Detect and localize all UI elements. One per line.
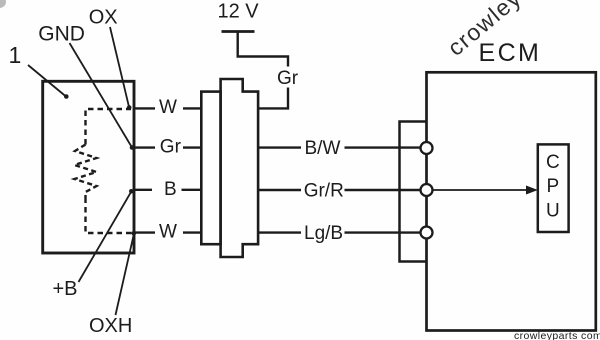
connector left half — [201, 92, 220, 245]
svg-text:Gr/R: Gr/R — [304, 181, 344, 202]
connector right half — [221, 79, 259, 257]
node dot OX (pin 1) — [127, 105, 132, 110]
svg-text:B/W: B/W — [305, 138, 341, 159]
terminal circle 2 (Gr/R) — [421, 184, 433, 196]
svg-text:OXH: OXH — [89, 315, 132, 337]
leader line for label 1 — [28, 65, 66, 97]
node dot for label 1 — [64, 94, 69, 99]
leader line GND — [70, 43, 133, 148]
svg-text:P: P — [547, 176, 560, 197]
svg-text:B: B — [164, 179, 177, 200]
leader line OX — [110, 27, 129, 107]
heater dashed outline — [86, 109, 134, 233]
watermark fragment top-left — [0, 0, 6, 8]
svg-text:1: 1 — [9, 42, 22, 68]
svg-text:12 V: 12 V — [218, 1, 260, 23]
node dot GND (pin 2) — [130, 145, 135, 150]
wire Gr/R connector to ECM — [258, 189, 421, 191]
svg-text:U: U — [546, 201, 560, 222]
wire B pin3 to connector — [135, 189, 201, 191]
svg-text:W: W — [159, 222, 177, 243]
leader line +B — [79, 192, 132, 283]
wire Gr pin2 to connector — [135, 146, 201, 148]
ECM connector bracket — [400, 122, 427, 262]
svg-text:OX: OX — [89, 7, 118, 29]
wire 12V supply to connector top — [238, 32, 288, 109]
arrow Gr/R to CPU — [433, 189, 529, 191]
svg-text:Lg/B: Lg/B — [304, 223, 343, 244]
svg-text:ECM: ECM — [479, 39, 542, 67]
node dot +B (pin 3) — [129, 189, 134, 194]
CPU box U2 — [538, 144, 569, 232]
wire Lg/B connector to ECM — [258, 231, 421, 233]
terminal circle 1 (B/W) — [421, 142, 433, 154]
svg-text:W: W — [159, 97, 177, 118]
wire B/W connector to ECM — [258, 146, 421, 148]
svg-text:Gr: Gr — [160, 136, 182, 157]
ECM box — [427, 72, 596, 330]
wire W pin4 to connector — [135, 231, 201, 233]
svg-text:+B: +B — [53, 278, 78, 300]
terminal circle 3 (Lg/B) — [421, 227, 433, 239]
resistor R heater (dashed zigzag) — [75, 145, 97, 198]
leader line OXH — [116, 234, 135, 316]
svg-text:GND: GND — [38, 23, 85, 46]
label Gr (supply wire) with white mask — [276, 67, 299, 88]
12V supply symbol bar — [222, 30, 255, 33]
svg-text:C: C — [546, 152, 560, 173]
node dot OXH (pin 4) — [132, 231, 137, 236]
wire W pin1 to connector — [135, 107, 201, 109]
sensor box — [43, 81, 134, 253]
svg-text:Gr: Gr — [277, 68, 299, 89]
